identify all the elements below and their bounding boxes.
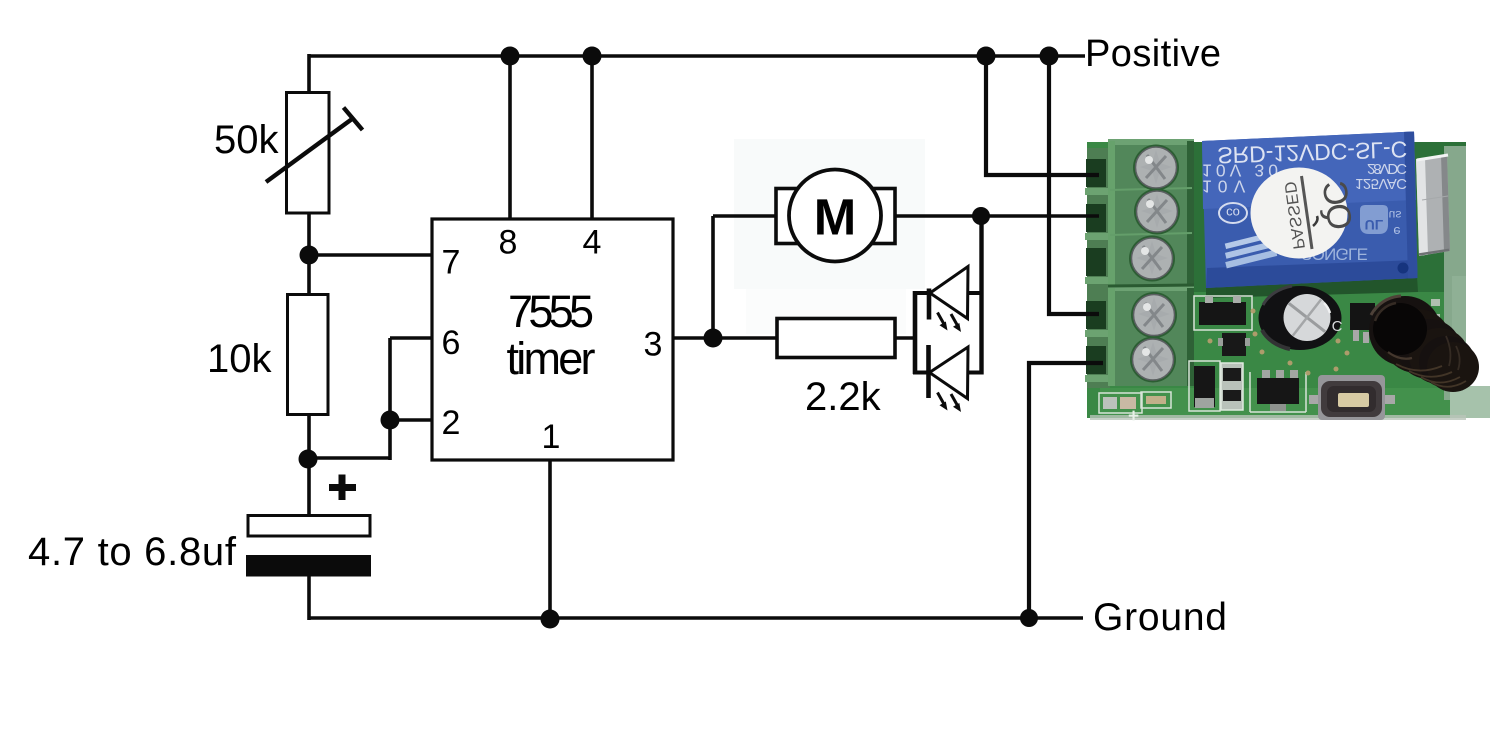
svg-text:QC: QC — [1315, 179, 1359, 232]
wire 50k top lead — [307, 54, 311, 95]
junction node pin1 ground — [541, 610, 560, 629]
svg-text:co: co — [1226, 206, 1240, 221]
capacitor C1 positive plate — [248, 516, 370, 537]
module crystal can — [1416, 154, 1450, 256]
wire bottom ground rail — [309, 616, 1083, 620]
wire node C to 2.2k — [713, 336, 777, 340]
wire node B to pin2 riser — [309, 456, 390, 460]
module PCB bottom shadow — [1090, 415, 1466, 420]
wire node C riser to motor — [711, 216, 715, 340]
svg-text:7: 7 — [442, 244, 461, 282]
module push button S1 — [1309, 375, 1395, 420]
module terminal screw 2 — [1134, 189, 1180, 235]
wire motor right lead to relay terminal 2 — [894, 214, 1099, 218]
relay module board — [1085, 132, 1490, 428]
motor M1 circle — [789, 170, 881, 262]
op-amp U1 7555 timer box — [432, 219, 673, 460]
svg-text:M: M — [814, 189, 856, 246]
module diode D3 — [1194, 296, 1252, 330]
wire positive drop 1 — [986, 56, 1099, 175]
module relay K1 body — [1202, 132, 1418, 289]
wire 2.2k to led bus — [895, 336, 916, 340]
module terminal wire-entry side face — [1087, 148, 1110, 388]
wire pin 8 to rail — [508, 56, 512, 219]
junction node C pin3 — [704, 329, 723, 348]
LED D2 — [929, 345, 969, 412]
svg-text:10k: 10k — [207, 337, 272, 381]
junction node top rail drop2 — [1040, 47, 1059, 66]
svg-text:3: 3 — [644, 326, 663, 364]
module relay stripes — [1221, 232, 1277, 268]
module electrolytic capacitor — [1259, 285, 1343, 350]
svg-text:timer: timer — [507, 333, 596, 384]
wire led anode bus — [979, 216, 983, 375]
svg-text:2.2k: 2.2k — [805, 375, 882, 419]
module transistor Q1 — [1218, 333, 1250, 356]
wire led2 cathode stub — [913, 371, 930, 375]
wire 10k bottom lead — [307, 414, 311, 517]
module antenna coil L1 — [1369, 296, 1479, 392]
module relay mirrored UL logo — [1360, 205, 1401, 239]
junction node B — [299, 450, 318, 469]
capacitor C1 negative plate — [246, 555, 371, 577]
module terminal wire slots — [1085, 159, 1109, 382]
module terminal block upper (3 way) — [1108, 139, 1194, 286]
module diode 1SS — [1221, 363, 1243, 410]
svg-text:e: e — [1393, 224, 1400, 239]
svg-text:4: 4 — [583, 224, 602, 262]
wire led1 cathode stub — [913, 291, 930, 295]
wire riser pins 6-2 — [388, 338, 392, 460]
module relay pin dot — [1398, 263, 1409, 274]
module regulator U3 — [1250, 370, 1306, 412]
wire to pin 6 — [390, 336, 432, 340]
resistor R1 50k preset arrow — [266, 108, 363, 183]
svg-text:6: 6 — [442, 324, 461, 362]
svg-text:125VAC: 125VAC — [1355, 175, 1407, 192]
svg-text:UL: UL — [1365, 217, 1384, 233]
module terminal screw 1 — [1133, 145, 1179, 191]
wire top positive rail — [309, 54, 1085, 58]
module PCB right light edge — [1444, 146, 1466, 400]
module terminal screw 4 — [1131, 292, 1177, 338]
resistor R1 50k body — [287, 93, 330, 214]
junction node top rail pin4 — [583, 47, 602, 66]
svg-text:Positive: Positive — [1085, 33, 1221, 75]
svg-text:C: C — [1332, 317, 1343, 334]
module PCB bottom-right light tab — [1450, 386, 1490, 418]
svg-text:7555: 7555 — [508, 286, 594, 337]
wire 50k bottom to node A — [307, 212, 311, 295]
module right pad column — [1431, 299, 1442, 351]
wire ground to relay terminal 5 — [1029, 363, 1103, 618]
svg-text:us: us — [1389, 208, 1402, 222]
svg-text:Ground: Ground — [1093, 596, 1227, 639]
svg-text:2: 2 — [442, 404, 461, 442]
junction node top rail pin8 — [501, 47, 520, 66]
module terminal screw 5 — [1130, 337, 1176, 383]
resistor R2 10k body — [288, 295, 329, 415]
module gold vias — [1208, 309, 1350, 376]
capacitor C1 plus sign — [329, 475, 356, 501]
wire motor left lead — [713, 214, 776, 218]
svg-text:8: 8 — [499, 224, 518, 262]
wire to pin 2 — [390, 418, 432, 422]
module relay shadow — [1206, 276, 1418, 298]
junction node pin2 — [381, 411, 400, 430]
wire node A to pin 7 — [309, 253, 432, 257]
svg-text:28VDC: 28VDC — [1367, 160, 1407, 177]
module IC U2 — [1189, 361, 1220, 411]
junction node motor-led — [972, 207, 990, 225]
wire pin 3 out — [673, 336, 713, 340]
svg-text:50k: 50k — [214, 118, 279, 162]
wire led2 anode stub — [967, 371, 983, 375]
junction node ground label — [1020, 609, 1038, 627]
svg-text:4.7 to 6.8uf: 4.7 to 6.8uf — [28, 530, 237, 574]
module terminal block lower (2 way) — [1108, 285, 1194, 386]
wire capacitor minus lead — [307, 576, 311, 620]
module PCB base — [1087, 142, 1466, 418]
wire led cathode bus — [913, 291, 918, 374]
module relay QC sticker — [1251, 168, 1359, 259]
svg-text:+: + — [1128, 406, 1139, 427]
junction node top rail drop1 — [977, 47, 996, 66]
wire pin 4 to rail — [590, 56, 594, 219]
wire led1 anode stub — [967, 291, 983, 295]
faint photo background behind motor — [734, 139, 925, 289]
svg-text:1: 1 — [542, 418, 561, 456]
module transistor Q2 — [1350, 303, 1377, 343]
motor M1 frame — [776, 189, 895, 244]
LED D1 — [929, 267, 968, 333]
module SMD pads bottom row — [1099, 392, 1171, 427]
junction node A pin7 — [300, 246, 319, 265]
module relay mirrored CO oval logo — [1219, 203, 1247, 223]
module terminal screw 3 — [1129, 236, 1175, 282]
resistor R3 2.2k body — [777, 319, 895, 358]
wire pin 1 to ground rail — [548, 460, 552, 618]
wire positive drop 2 — [1049, 56, 1099, 314]
